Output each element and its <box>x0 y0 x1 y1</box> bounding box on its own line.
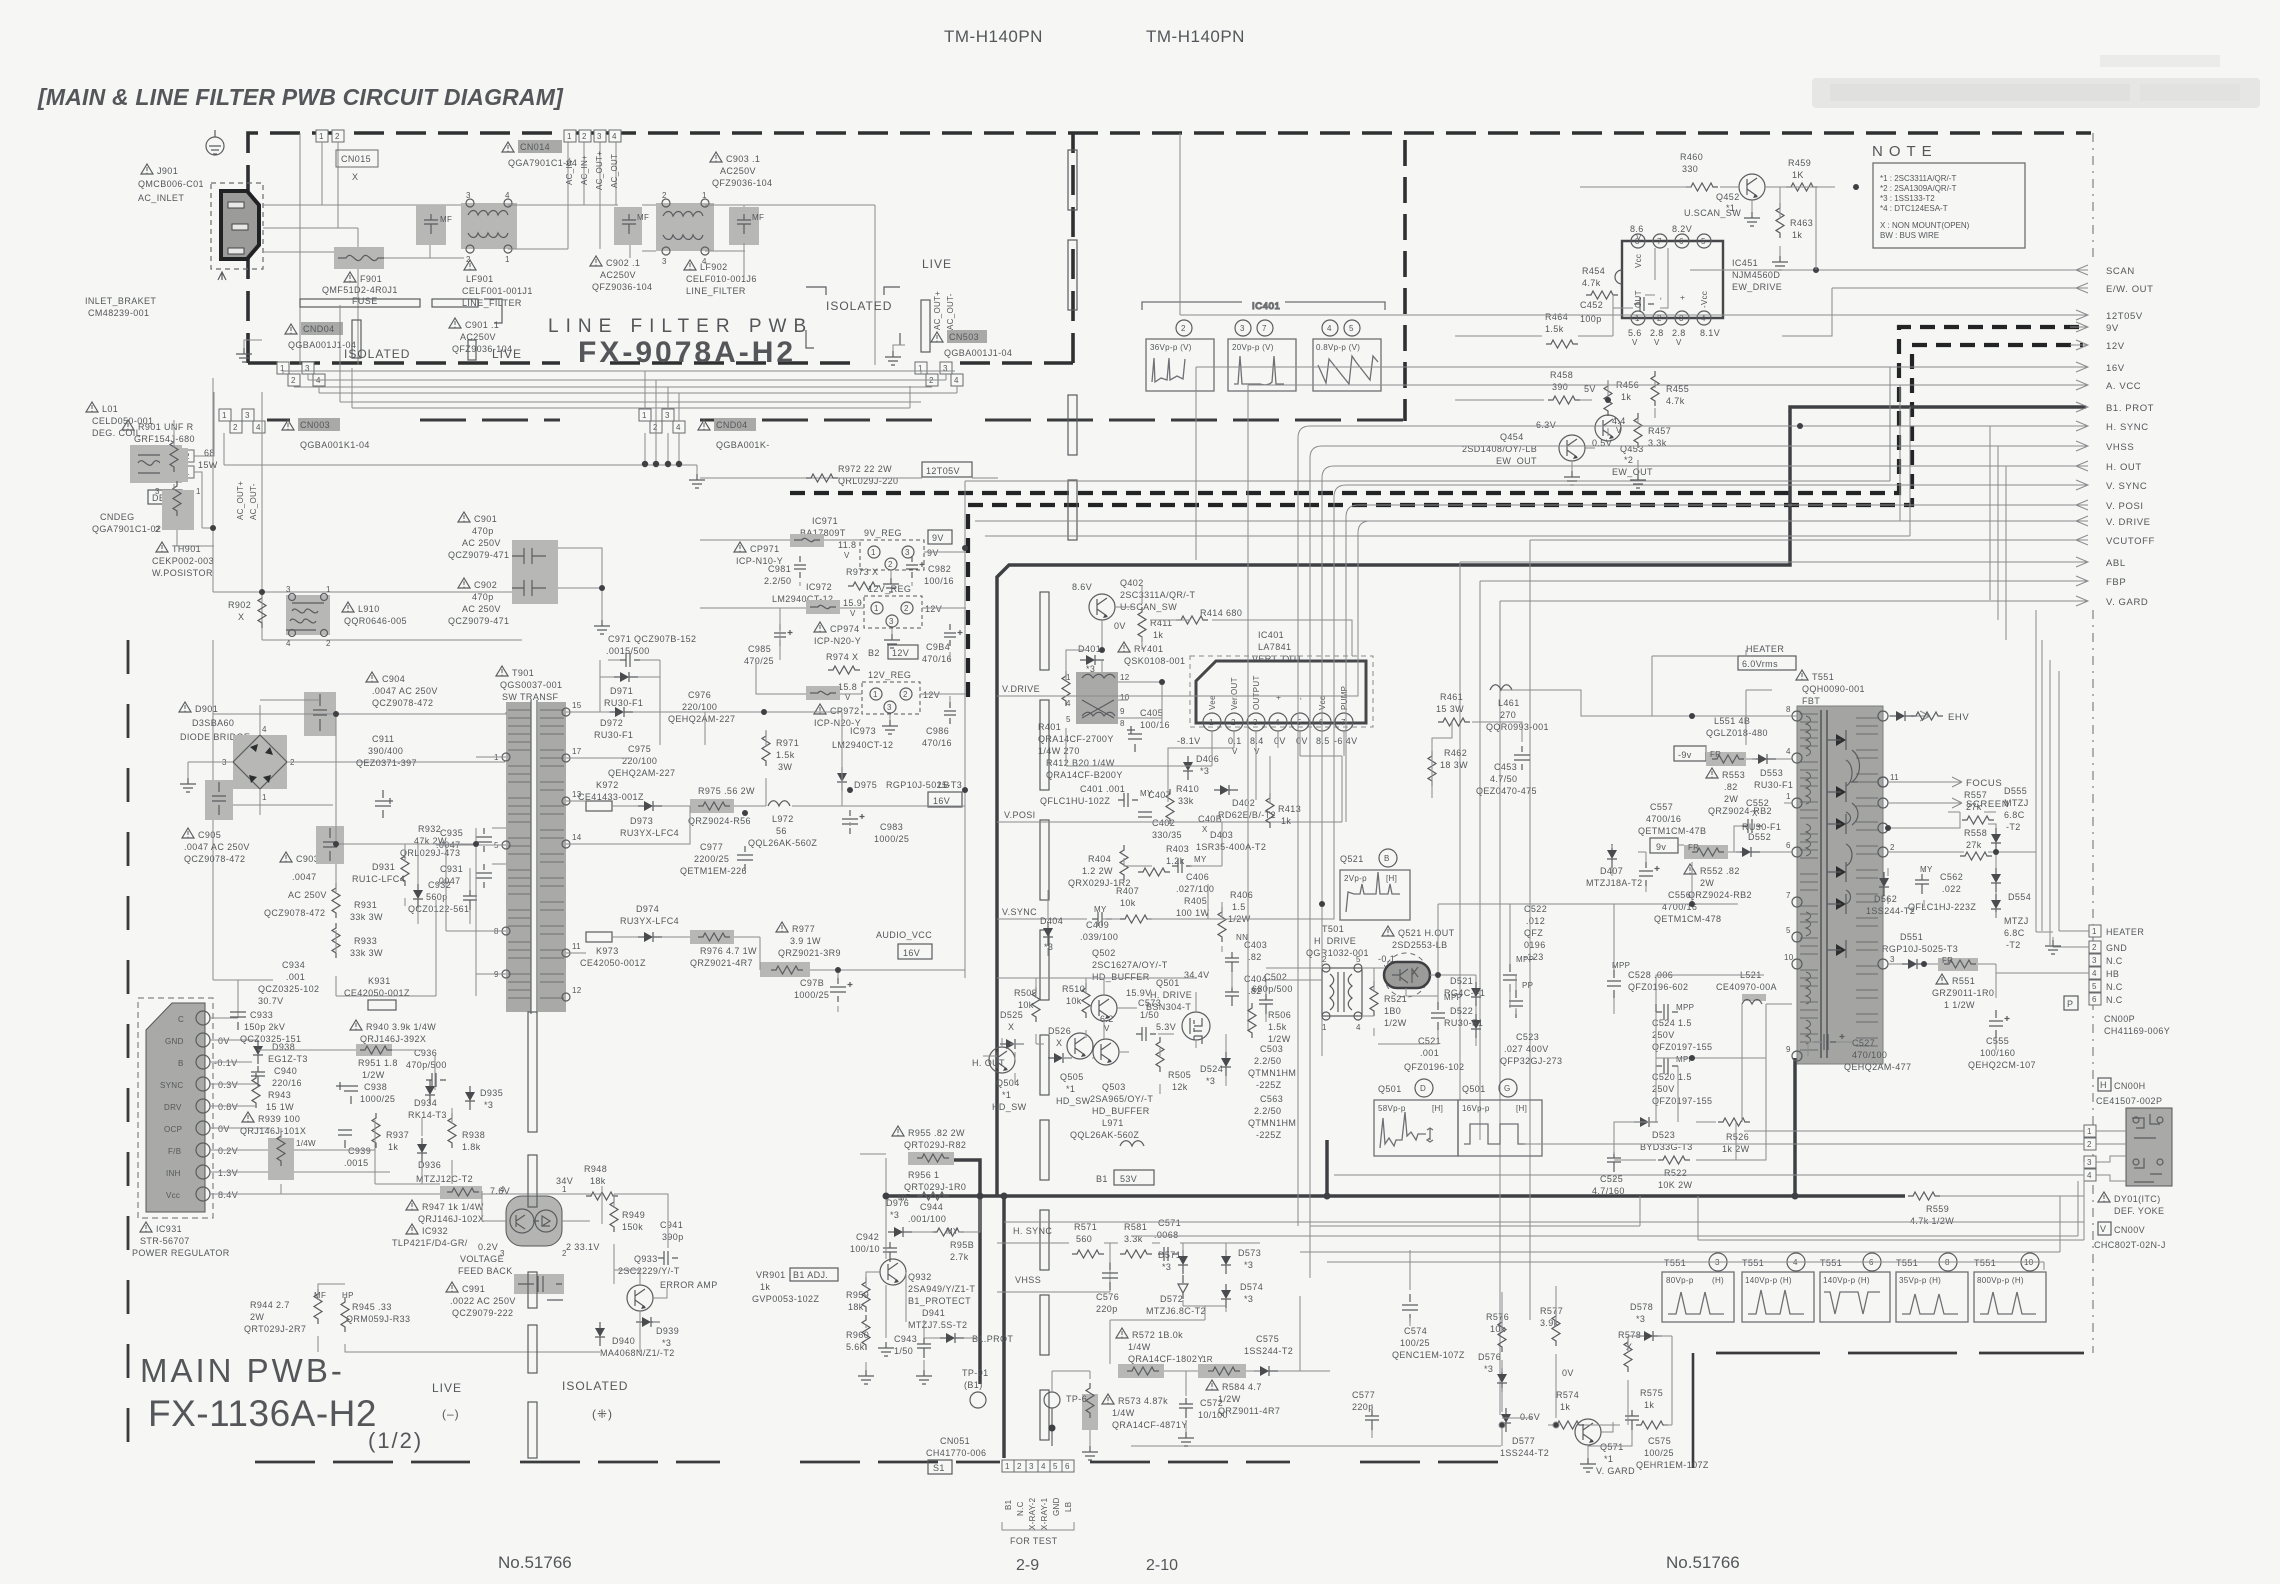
C562 labels <box>1908 865 1976 912</box>
svg-text:V: V <box>850 609 856 618</box>
R973 labels <box>846 567 880 590</box>
svg-text:D901: D901 <box>195 704 218 714</box>
diode D934 <box>408 1080 447 1120</box>
svg-text:W.POSISTOR: W.POSISTOR <box>152 568 213 578</box>
svg-text:4: 4 <box>505 191 510 200</box>
svg-text:R506: R506 <box>1268 1010 1291 1020</box>
svg-text:QEHQ2AM-477: QEHQ2AM-477 <box>1844 1062 1911 1072</box>
svg-text:D401: D401 <box>1078 644 1101 654</box>
svg-text:No.51766: No.51766 <box>498 1553 572 1572</box>
Q502 labels <box>1092 948 1210 982</box>
R971 resistor <box>762 731 799 772</box>
IC972 labels <box>772 582 862 618</box>
C933 labels <box>230 1010 301 1044</box>
svg-text:1.2 2W: 1.2 2W <box>1082 866 1113 876</box>
svg-text:2.8: 2.8 <box>1650 328 1664 338</box>
svg-text:AC_IN+: AC_IN+ <box>580 155 589 185</box>
svg-text:AC_OUT+: AC_OUT+ <box>236 481 245 520</box>
svg-text:D406: D406 <box>1196 754 1219 764</box>
C977 labels <box>680 842 753 876</box>
svg-text:B: B <box>1384 854 1390 863</box>
svg-text:SCAN: SCAN <box>2106 266 2135 277</box>
svg-text:TP-91: TP-91 <box>962 1368 989 1378</box>
svg-text:HEATER: HEATER <box>1746 644 1784 654</box>
svg-text:9V: 9V <box>932 533 944 543</box>
svg-text:3: 3 <box>305 364 310 373</box>
svg-text:T551: T551 <box>1742 1258 1764 1268</box>
svg-text:CN503: CN503 <box>949 332 979 342</box>
svg-text:1.5k: 1.5k <box>776 750 795 760</box>
flyback transformer T551 <box>1784 705 1899 1064</box>
svg-text:MTZJ6.8C-T2: MTZJ6.8C-T2 <box>1146 1306 1206 1316</box>
svg-text:C563: C563 <box>1260 1094 1283 1104</box>
svg-text:L971: L971 <box>1102 1118 1124 1128</box>
diode D562 <box>1866 872 1915 916</box>
wire IC931 pin stubs <box>210 980 602 1194</box>
svg-text:17: 17 <box>572 747 582 756</box>
svg-text:R573 4.87k: R573 4.87k <box>1118 1396 1168 1406</box>
svg-text:4.7/50: 4.7/50 <box>1490 774 1517 784</box>
svg-text:*3 : 1SS133-T2: *3 : 1SS133-T2 <box>1880 194 1935 203</box>
R410 labels <box>1166 784 1199 824</box>
svg-text:D524: D524 <box>1200 1064 1223 1074</box>
svg-text:220p: 220p <box>1352 1402 1374 1412</box>
signal arrow 16V <box>1196 362 2125 560</box>
svg-text:(–): (–) <box>442 1407 460 1421</box>
svg-text:MPP: MPP <box>1516 955 1534 964</box>
svg-text:D402: D402 <box>1232 798 1255 808</box>
svg-text:AC 250V: AC 250V <box>462 604 501 614</box>
svg-text:R575: R575 <box>1640 1388 1663 1398</box>
IC401 vertical out module <box>1190 656 1373 731</box>
AC_OUT vertical labels right <box>933 291 955 330</box>
svg-text:LIVE: LIVE <box>432 1381 462 1395</box>
svg-text:ABL: ABL <box>2106 558 2126 569</box>
svg-text:2Vp-p: 2Vp-p <box>1344 874 1367 883</box>
svg-text:NOTE: NOTE <box>1872 143 1938 160</box>
svg-text:QRL029J-473: QRL029J-473 <box>400 848 460 858</box>
svg-text:A. VCC: A. VCC <box>2106 381 2141 392</box>
svg-text:H. DRIVE: H. DRIVE <box>1314 936 1356 946</box>
svg-text:C503: C503 <box>1260 1044 1283 1054</box>
svg-text:*1 : 2SC3311A/QR/-T: *1 : 2SC3311A/QR/-T <box>1880 174 1956 183</box>
svg-text:C933: C933 <box>250 1010 273 1020</box>
svg-text:1: 1 <box>2087 1127 2092 1136</box>
svg-text:R933: R933 <box>354 936 377 946</box>
svg-text:R454: R454 <box>1582 266 1605 276</box>
svg-text:Q501: Q501 <box>1462 1084 1486 1094</box>
svg-text:R462: R462 <box>1444 748 1467 758</box>
ISOLATED bottom label <box>562 1379 628 1421</box>
snubber C931 <box>436 864 492 888</box>
transistor Q452 <box>1716 174 1765 213</box>
svg-text:J901: J901 <box>157 166 178 176</box>
svg-text:CELF010-001J6: CELF010-001J6 <box>686 274 757 284</box>
R505 labels <box>1156 1037 1191 1092</box>
svg-text:CELF001-001J1: CELF001-001J1 <box>462 286 533 296</box>
wire DY01 leads <box>1334 1131 2126 1181</box>
svg-text:8.2V: 8.2V <box>1672 224 1692 234</box>
capacitor C903b <box>316 826 344 864</box>
svg-text:C406: C406 <box>1186 872 1209 882</box>
wire lower bus to yoke connectors <box>1004 1162 2084 1270</box>
ISOLATED LIVE bottom labels <box>344 340 522 361</box>
diodes D573 D574 <box>1221 1248 1263 1308</box>
svg-text:2SC1627A/OY/-T: 2SC1627A/OY/-T <box>1092 960 1168 970</box>
svg-text:R945 .33: R945 .33 <box>352 1302 392 1312</box>
C552 labels <box>1742 798 1769 833</box>
svg-text:CN051: CN051 <box>940 1436 970 1446</box>
svg-text:1: 1 <box>196 487 201 496</box>
svg-text:0V: 0V <box>1274 736 1286 746</box>
svg-text:C576: C576 <box>1096 1292 1119 1302</box>
IC931 labels <box>132 1222 230 1258</box>
svg-text:V.DRIVE: V.DRIVE <box>1002 684 1040 694</box>
svg-text:QFP32GJ-273: QFP32GJ-273 <box>1500 1056 1562 1066</box>
svg-text:C402: C402 <box>1152 818 1175 828</box>
svg-text:250V: 250V <box>1652 1030 1675 1040</box>
svg-text:EG1Z-T3: EG1Z-T3 <box>268 1054 308 1064</box>
svg-text:6.8C: 6.8C <box>2004 810 2025 820</box>
svg-text:OCP: OCP <box>164 1125 182 1134</box>
Q503 labels <box>1090 1082 1153 1116</box>
svg-text:C523: C523 <box>1516 1032 1539 1042</box>
svg-text:QMF51D2-4R0J1: QMF51D2-4R0J1 <box>322 285 398 295</box>
svg-text:D526: D526 <box>1048 1026 1071 1036</box>
svg-text:CEKP002-003: CEKP002-003 <box>152 556 214 566</box>
svg-text:.039/100: .039/100 <box>1080 932 1118 942</box>
resistor R509 <box>1014 987 1040 1022</box>
capacitor C941 <box>658 1220 684 1265</box>
svg-text:QFZ0196-102: QFZ0196-102 <box>1404 1062 1464 1072</box>
wire degauss <box>174 392 214 546</box>
svg-text:B2: B2 <box>868 648 880 658</box>
svg-text:8.4: 8.4 <box>1250 736 1264 746</box>
svg-text:5: 5 <box>2092 982 2097 991</box>
C936 labels <box>406 1048 447 1087</box>
C939 labels <box>338 1130 371 1168</box>
svg-text:D939: D939 <box>656 1326 679 1336</box>
diode D523 <box>1634 1117 1693 1152</box>
svg-text:B1: B1 <box>1004 1499 1013 1510</box>
svg-text:TM-H140PN: TM-H140PN <box>1146 27 1245 46</box>
svg-text:R956 1: R956 1 <box>908 1170 939 1180</box>
svg-text:3: 3 <box>665 411 670 420</box>
svg-text:C902 .1: C902 .1 <box>606 258 640 268</box>
IC971 labels <box>800 516 856 560</box>
svg-text:HP: HP <box>342 1291 354 1300</box>
svg-text:RU30-F1: RU30-F1 <box>1754 780 1793 790</box>
svg-text:2SD2553-LB: 2SD2553-LB <box>1392 940 1448 950</box>
svg-text:2.8: 2.8 <box>1672 328 1686 338</box>
R460 labels <box>1680 152 1718 191</box>
transistor Q521 HOT <box>1384 953 1430 997</box>
pins 1 2 line filter top <box>316 130 344 228</box>
svg-text:N.C: N.C <box>1016 1501 1025 1516</box>
svg-text:ISOLATED: ISOLATED <box>826 299 892 313</box>
svg-text:INH: INH <box>166 1169 181 1178</box>
svg-text:1.8k: 1.8k <box>462 1142 481 1152</box>
LIVE bottom label <box>432 1381 462 1421</box>
signal arrow 12V <box>2070 340 2125 352</box>
R931 labels + resistor <box>332 883 383 922</box>
resistor R938 <box>448 1113 485 1152</box>
connector CN015 <box>336 150 378 182</box>
svg-text:1: 1 <box>567 132 572 141</box>
R576 labels <box>1486 1312 1509 1352</box>
svg-text:3: 3 <box>1890 955 1895 964</box>
C527 labels <box>1814 1034 1911 1072</box>
D407 labels <box>1586 844 1643 888</box>
svg-text:C405: C405 <box>1140 708 1163 718</box>
R933 labels + resistor <box>332 923 383 958</box>
svg-text:4.7k: 4.7k <box>1582 278 1601 288</box>
svg-text:Q933: Q933 <box>634 1254 658 1264</box>
svg-text:Q452: Q452 <box>1716 192 1740 202</box>
svg-text:HD_BUFFER: HD_BUFFER <box>1092 1106 1150 1116</box>
svg-text:*3: *3 <box>1484 1364 1493 1374</box>
connector CND04 pins <box>639 409 685 433</box>
svg-text:1/2W: 1/2W <box>1268 1034 1291 1044</box>
svg-text:1000/25: 1000/25 <box>794 990 829 1000</box>
resistor R411 <box>1138 607 1172 642</box>
CP972 labels <box>814 704 861 728</box>
svg-text:FBT: FBT <box>1802 696 1820 706</box>
svg-text:15W: 15W <box>198 460 218 470</box>
svg-text:2: 2 <box>233 423 238 432</box>
svg-text:CNDEG: CNDEG <box>100 512 135 522</box>
svg-text:150p 2kV: 150p 2kV <box>244 1022 285 1032</box>
svg-text:*1: *1 <box>1002 1090 1011 1100</box>
dashed boundary around EW drive block <box>1403 140 1407 421</box>
test point TP-91 <box>962 1368 989 1408</box>
C403 C404 labels <box>1225 933 1267 1006</box>
svg-text:R974 X: R974 X <box>826 652 858 662</box>
svg-text:RU1C-LFC4: RU1C-LFC4 <box>352 874 405 884</box>
capacitor C902 <box>614 207 649 245</box>
junction dots rails <box>742 709 968 973</box>
svg-text:2: 2 <box>2092 943 2097 952</box>
focus screen pots <box>1850 750 1860 825</box>
svg-text:4: 4 <box>262 725 267 734</box>
svg-text:-Vcc: -Vcc <box>1700 291 1709 308</box>
R521 labels <box>1370 981 1407 1028</box>
svg-text:R578: R578 <box>1618 1330 1641 1340</box>
svg-text:20Vp-p (V): 20Vp-p (V) <box>1232 343 1274 352</box>
diode D575 <box>1244 1334 1293 1376</box>
svg-text:CND04: CND04 <box>303 324 335 334</box>
resistor R951 gray <box>356 1044 398 1080</box>
svg-text:LINE FILTER PWB: LINE FILTER PWB <box>548 316 813 337</box>
svg-text:QETM1CM-478: QETM1CM-478 <box>1654 914 1721 924</box>
svg-text:3: 3 <box>245 411 250 420</box>
svg-text:Q502: Q502 <box>1092 948 1116 958</box>
wires LF902 to right <box>642 205 875 365</box>
svg-text:R558: R558 <box>1964 828 1987 838</box>
svg-text:1k: 1k <box>1792 230 1802 240</box>
svg-text:V: V <box>1104 1024 1110 1033</box>
svg-text:220/100: 220/100 <box>682 702 717 712</box>
inlet braket labels <box>85 296 156 318</box>
svg-text:-8.1V: -8.1V <box>1177 736 1201 746</box>
svg-text:27k: 27k <box>1966 840 1982 850</box>
svg-text:330/35: 330/35 <box>1152 830 1182 840</box>
svg-text:1/4W: 1/4W <box>296 1139 316 1148</box>
D403 labels <box>1196 830 1266 852</box>
svg-text:-: - <box>1656 297 1665 300</box>
svg-text:D572: D572 <box>1160 1294 1183 1304</box>
C401 labels <box>1040 784 1153 807</box>
svg-text:D976: D976 <box>886 1198 909 1208</box>
R945 labels + resistor <box>341 1291 410 1332</box>
svg-text:GRZ9011-1R0: GRZ9011-1R0 <box>1932 988 1994 998</box>
svg-text:1/4W: 1/4W <box>1128 1342 1151 1352</box>
wire H out stage <box>1266 822 1792 1182</box>
SCREEN arrow <box>1888 798 2009 810</box>
svg-text:C977: C977 <box>700 842 723 852</box>
IC401 callout bracket <box>1142 301 1385 312</box>
resistor R939 gray <box>268 1131 294 1180</box>
svg-text:1SR35-400A-T2: 1SR35-400A-T2 <box>1196 842 1266 852</box>
svg-text:2: 2 <box>1181 324 1186 333</box>
capacitor C978 <box>794 978 853 1002</box>
capacitor C984 <box>922 624 963 664</box>
svg-text:QEHQ2AM-227: QEHQ2AM-227 <box>668 714 735 724</box>
R401 labels <box>1038 722 1114 756</box>
svg-text:QRA14CF-2700Y: QRA14CF-2700Y <box>1038 734 1114 744</box>
svg-text:(1/2): (1/2) <box>368 1428 423 1453</box>
thick solid B1-PROT boundary line <box>997 407 2086 1196</box>
svg-text:10k: 10k <box>1018 1000 1034 1010</box>
Q505 labels <box>1056 1072 1091 1106</box>
diode D576 <box>1478 1352 1507 1392</box>
svg-text:*3: *3 <box>1244 1260 1253 1270</box>
bottom boundary dashed right half <box>1716 1352 2084 1355</box>
svg-text:QFZ0196-602: QFZ0196-602 <box>1628 982 1688 992</box>
svg-text:53V: 53V <box>1120 1174 1137 1184</box>
R977 gray resistor <box>760 962 810 977</box>
svg-text:QCZ0122-561: QCZ0122-561 <box>408 904 469 914</box>
IC931 connector block <box>138 998 213 1218</box>
C523 labels <box>1500 981 1562 1066</box>
C406 labels <box>1172 855 1214 894</box>
svg-text:BW : BUS WIRE: BW : BUS WIRE <box>1880 231 1939 240</box>
svg-text:D553: D553 <box>1760 768 1783 778</box>
svg-text:[H]: [H] <box>1386 874 1397 883</box>
svg-text:C985: C985 <box>748 644 771 654</box>
svg-text:7: 7 <box>1786 891 1791 900</box>
T501 labels <box>1306 924 1369 958</box>
svg-text:18k: 18k <box>590 1176 606 1186</box>
svg-text:5: 5 <box>1053 1462 1058 1471</box>
svg-text:C905: C905 <box>198 830 221 840</box>
svg-text:V.POSI: V.POSI <box>1004 810 1036 820</box>
svg-text:470p: 470p <box>472 526 494 536</box>
svg-text:R574: R574 <box>1556 1390 1579 1400</box>
svg-text:D522: D522 <box>1450 1006 1473 1016</box>
svg-text:C975: C975 <box>628 744 651 754</box>
R551 labels <box>1932 974 1994 1010</box>
waveform box Q501 D <box>1374 1100 1458 1156</box>
svg-text:1/4W: 1/4W <box>1112 1408 1135 1418</box>
signal arrow 9V <box>2070 322 2119 334</box>
svg-text:6.0Vrms: 6.0Vrms <box>1742 659 1778 669</box>
svg-text:C942: C942 <box>856 1232 879 1242</box>
svg-text:1k: 1k <box>1621 392 1631 402</box>
svg-text:0.6V: 0.6V <box>1520 1412 1540 1422</box>
svg-text:800Vp-p (H): 800Vp-p (H) <box>1977 1276 2024 1285</box>
resistor R937 <box>372 1113 409 1152</box>
connector CN014 pins <box>564 130 621 142</box>
transformer T901 <box>494 700 582 1014</box>
svg-text:C901 .1: C901 .1 <box>465 320 499 330</box>
svg-text:R940 3.9k 1/4W: R940 3.9k 1/4W <box>366 1022 436 1032</box>
svg-text:EW_DRIVE: EW_DRIVE <box>1732 282 1782 292</box>
svg-text:D971: D971 <box>610 686 633 696</box>
svg-text:QRZ9021-3R9: QRZ9021-3R9 <box>778 948 841 958</box>
svg-text:R522: R522 <box>1664 1168 1687 1178</box>
svg-text:QCZ9078-472: QCZ9078-472 <box>372 698 433 708</box>
svg-text:B1_PROTECT: B1_PROTECT <box>908 1296 971 1306</box>
wire primary loop <box>213 712 506 974</box>
svg-text:8.4V: 8.4V <box>218 1190 238 1200</box>
svg-text:34V: 34V <box>556 1176 573 1186</box>
svg-text:.82: .82 <box>1248 952 1262 962</box>
svg-text:5.3V: 5.3V <box>1156 1022 1176 1032</box>
svg-text:MY: MY <box>1920 865 1933 874</box>
svg-text:D552: D552 <box>1748 832 1771 842</box>
left page dashed boundary <box>127 640 130 1462</box>
signal arrow A VCC <box>1248 380 2141 1030</box>
CND04 label row2 <box>698 418 770 450</box>
svg-text:100/25: 100/25 <box>1400 1338 1430 1348</box>
wire bridge <box>180 700 505 815</box>
svg-text:AC_OUT+: AC_OUT+ <box>933 291 942 330</box>
svg-text:EHV: EHV <box>1948 712 1969 723</box>
svg-text:D973: D973 <box>630 816 653 826</box>
svg-text:D578: D578 <box>1630 1302 1653 1312</box>
svg-text:R949: R949 <box>622 1210 645 1220</box>
R940 labels <box>350 1020 436 1044</box>
svg-text:3: 3 <box>2087 1158 2092 1167</box>
svg-text:QRZ9021-4R7: QRZ9021-4R7 <box>690 958 753 968</box>
svg-text:2: 2 <box>335 132 340 141</box>
svg-text:ICP-N20-Y: ICP-N20-Y <box>814 636 861 646</box>
svg-text:*4 : DTC124ESA-T: *4 : DTC124ESA-T <box>1880 204 1948 213</box>
svg-text:2: 2 <box>662 191 667 200</box>
svg-text:QCZ9079-471: QCZ9079-471 <box>448 616 509 626</box>
svg-text:2SC3311A/QR/-T: 2SC3311A/QR/-T <box>1120 590 1196 600</box>
svg-text:1000/25: 1000/25 <box>874 834 909 844</box>
svg-text:D521: D521 <box>1450 976 1473 986</box>
R463 labels <box>1776 203 1813 240</box>
diode D526 <box>1048 1026 1072 1063</box>
svg-text:*3: *3 <box>1162 1262 1171 1272</box>
AC_IN AC_OUT vertical labels <box>565 151 619 190</box>
svg-text:33k: 33k <box>1178 796 1194 806</box>
CP971 fuse <box>734 534 824 566</box>
svg-text:4: 4 <box>1786 747 1791 756</box>
C971 labels <box>606 634 696 667</box>
svg-text:AC_OUT+: AC_OUT+ <box>595 151 604 190</box>
svg-text:D562: D562 <box>1874 894 1897 904</box>
wire waveform row feed <box>1310 1196 2084 1240</box>
svg-text:-T2: -T2 <box>2006 822 2021 832</box>
IC973 labels <box>832 726 893 750</box>
svg-text:C574: C574 <box>1404 1326 1427 1336</box>
bottom boundary right step <box>1692 1353 1695 1468</box>
R902 labels <box>228 600 251 622</box>
